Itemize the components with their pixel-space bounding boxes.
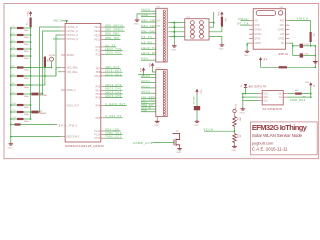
svg-text:ADC2: ADC2 — [141, 84, 150, 88]
svg-text:Solar WLAN Sensor Node: Solar WLAN Sensor Node — [252, 133, 303, 138]
capacitor C9 — [11, 93, 17, 95]
svg-text:100n: 100n — [24, 58, 30, 60]
svg-text:C_DAC0_OUT: C_DAC0_OUT — [105, 103, 126, 106]
svg-text:PC0: PC0 — [96, 47, 101, 49]
wire LFXTAL_P net to MCU — [40, 27, 62, 112]
svg-text:3V3_SW: 3V3_SW — [193, 96, 195, 104]
svg-text:PD5: PD5 — [96, 118, 101, 120]
wire VMCU at MCU top — [62, 21, 67, 24]
power symbol VCC (top left) — [29, 11, 32, 14]
ground GND (ESP) — [246, 50, 248, 52]
svg-text:CMU_OUT: CMU_OUT — [105, 66, 120, 69]
svg-text:BH1750FVI-TR: BH1750FVI-TR — [249, 85, 267, 88]
svg-text:pugbutt.com: pugbutt.com — [252, 141, 273, 146]
capacitor C14 — [293, 45, 300, 47]
svg-text:C.A.E. 2015-11-11: C.A.E. 2015-11-11 — [252, 147, 288, 152]
power symbol VCC (R3) — [220, 12, 223, 15]
svg-text:PC1: PC1 — [96, 51, 101, 53]
svg-text:VMCU: VMCU — [141, 8, 150, 12]
svg-text:EFM32G110F128_QFN32: EFM32G110F128_QFN32 — [65, 144, 104, 148]
svg-text:D1: D1 — [241, 85, 243, 87]
wire ESP RXD net — [241, 24, 250, 26]
resistor R10 10k — [233, 134, 237, 143]
wire sensor VCC pullup — [288, 93, 295, 95]
svg-text:100n: 100n — [24, 30, 30, 32]
svg-text:VCC: VCC — [149, 62, 151, 67]
svg-text:PE13: PE13 — [94, 31, 100, 33]
svg-text:VCC: VCC — [219, 11, 221, 16]
SV1 left wires — [141, 10, 156, 12]
svg-text:DBG_SWO: DBG_SWO — [141, 29, 156, 33]
svg-text:GND: GND — [194, 125, 199, 127]
sensor left pins and wires — [258, 93, 262, 95]
svg-text:100n: 100n — [24, 51, 30, 53]
svg-text:PD4: PD4 — [96, 106, 101, 108]
svg-text:GND: GND — [171, 49, 176, 51]
svg-text:VDD_REG: VDD_REG — [67, 68, 78, 70]
capacitor C7 — [11, 75, 17, 77]
diode D1 indicator LED — [244, 84, 247, 87]
svg-text:10k: 10k — [239, 135, 241, 138]
IC U1 EFM32G microcontroller — [65, 23, 101, 142]
ground GND (SV1) — [136, 18, 138, 20]
svg-text:RESET: RESET — [67, 55, 75, 57]
svg-text:GND: GND — [134, 24, 139, 26]
svg-text:GND: GND — [254, 25, 259, 27]
svg-text:GND: GND — [231, 150, 236, 152]
capacitor C11 — [11, 111, 17, 113]
JP1 right wires — [209, 22, 214, 24]
ground GND (JP1) — [173, 44, 175, 46]
ground GND (left rail) — [10, 142, 12, 144]
test point TP1 — [233, 109, 236, 112]
svg-text:S7C4: S7C4 — [236, 104, 238, 109]
capacitor C12 — [11, 118, 17, 120]
connector SV2 — [156, 70, 167, 117]
module U2 ESP-01 WiFi — [253, 9, 285, 50]
svg-text:GND: GND — [176, 152, 181, 154]
resistor R1 — [30, 18, 32, 28]
power symbol VCC (sensor) — [310, 87, 312, 97]
wire JP1 row4 to ground — [209, 36, 222, 43]
ESP antenna trace — [256, 11, 276, 16]
svg-text:R9: R9 — [236, 118, 238, 120]
svg-text:PD4_LED: PD4_LED — [105, 128, 119, 131]
wire JP1 VMCU stub — [213, 12, 215, 27]
wire ESP RST pullup — [289, 20, 310, 22]
wire AVDD node — [24, 67, 52, 69]
svg-text:10k: 10k — [313, 33, 315, 36]
svg-text:100n: 100n — [24, 107, 30, 109]
crystal Q1 32.768kHz — [30, 93, 33, 95]
svg-text:ADC0_CH0: ADC0_CH0 — [105, 84, 122, 87]
svg-text:DBG_TDO: DBG_TDO — [105, 37, 119, 40]
svg-text:PB7: PB7 — [96, 69, 101, 71]
svg-text:DBG_SWDIO: DBG_SWDIO — [105, 29, 123, 32]
svg-text:GPIO2: GPIO2 — [254, 34, 262, 36]
svg-text:48MHZ: 48MHZ — [40, 113, 47, 115]
svg-text:ADC0: ADC0 — [141, 74, 150, 78]
svg-text:DBG_SWDIO: DBG_SWDIO — [141, 24, 160, 28]
capacitor C6 — [11, 67, 17, 69]
wire fuse to ground — [196, 110, 198, 119]
svg-text:GND: GND — [240, 112, 245, 114]
connector JP1 debug header — [185, 19, 209, 40]
wire C7 row extension — [24, 75, 57, 77]
svg-text:ADC0_CH2: ADC0_CH2 — [105, 91, 122, 94]
svg-text:CHPD: CHPD — [278, 30, 285, 32]
wire TP1 to R9 — [234, 113, 236, 117]
wire fuse top — [196, 94, 198, 106]
ESP left pins — [249, 20, 253, 22]
ground GND (caps) — [313, 61, 318, 63]
svg-text:PD2: PD2 — [96, 94, 101, 96]
svg-text:VD: VD — [254, 21, 258, 23]
svg-text:VMCU: VMCU — [53, 20, 62, 23]
wire sensor SDA net — [288, 96, 311, 98]
wire ESP pin6 ground — [247, 43, 249, 49]
svg-text:VCCA: VCCA — [203, 127, 213, 131]
svg-text:DBG_SWCLK: DBG_SWCLK — [141, 19, 160, 23]
MCU left pin stubs — [61, 26, 65, 28]
svg-text:100n: 100n — [24, 37, 30, 39]
wire R10 to ground — [234, 143, 236, 145]
capacitor C10 — [11, 104, 17, 106]
wire SV1 pin2 to ground — [137, 14, 156, 18]
svg-text:PB11: PB11 — [95, 76, 101, 78]
svg-text:32.768K: 32.768K — [40, 95, 48, 97]
capacitor C15 — [293, 55, 300, 57]
svg-text:CMO_PA1: CMO_PA1 — [290, 98, 306, 102]
svg-text:R10: R10 — [236, 135, 238, 138]
svg-text:100n: 100n — [24, 114, 30, 116]
svg-text:VCC: VCC — [27, 11, 29, 16]
svg-text:ESP-01: ESP-01 — [279, 52, 289, 56]
crystal Q2 48MHz — [30, 111, 33, 113]
svg-text:PC15: PC15 — [94, 138, 100, 140]
svg-text:GND: GND — [154, 125, 159, 127]
resistor R7 — [295, 93, 302, 95]
svg-text:PC13: PC13 — [94, 131, 100, 133]
wire sensor left rail — [242, 94, 244, 107]
svg-text:100n: 100n — [24, 44, 30, 46]
svg-text:EFM32G IoThingy: EFM32G IoThingy — [252, 123, 308, 132]
svg-text:SCL: SCL — [263, 101, 268, 103]
svg-text:PC14: PC14 — [94, 135, 100, 137]
svg-text:COMP_HYS: COMP_HYS — [133, 141, 153, 145]
capacitor C5 — [11, 55, 17, 57]
wire HFXTAL_P net to MCU — [56, 35, 61, 76]
svg-text:PD4: PD4 — [141, 57, 148, 61]
svg-text:GND: GND — [219, 48, 224, 50]
svg-text:GPIO0: GPIO0 — [254, 30, 262, 32]
capacitor C13 (bottom row) — [11, 124, 15, 126]
svg-text:PD1: PD1 — [96, 90, 101, 92]
ground GND (SV2) — [156, 120, 158, 122]
wire ESP VCC net — [241, 20, 250, 22]
svg-text:DC: DC — [279, 94, 283, 96]
svg-text:LEU0_RX: LEU0_RX — [141, 51, 156, 55]
svg-text:10k: 10k — [224, 18, 226, 21]
svg-text:PE11: PE11 — [95, 39, 101, 41]
wire HFXTAL_N stub — [53, 38, 61, 40]
wire cap bus vertical — [30, 28, 32, 119]
schematic frame border — [4, 4, 319, 159]
wire left cap rail — [10, 28, 12, 142]
svg-text:PB8: PB8 — [96, 72, 101, 74]
wire AVDD branch down — [44, 68, 46, 86]
svg-text:PE10: PE10 — [94, 35, 100, 37]
wire LED to rail — [245, 87, 247, 93]
capacitor C3 — [11, 41, 17, 43]
ground GND (T1) — [179, 147, 181, 149]
svg-text:100n: 100n — [24, 87, 30, 89]
svg-text:ADC1: ADC1 — [141, 79, 150, 83]
svg-text:IC2 I03SENSOR: IC2 I03SENSOR — [262, 108, 282, 111]
svg-text:URXD: URXD — [254, 43, 261, 45]
svg-text:PE12: PE12 — [94, 27, 100, 29]
svg-text:1k: 1k — [265, 58, 267, 60]
ground GND (JP1 row4) — [221, 43, 223, 45]
svg-text:ADC0_CH1: ADC0_CH1 — [105, 88, 122, 91]
svg-text:U0_RX: U0_RX — [141, 40, 152, 44]
wire SV2 to ground — [156, 117, 158, 120]
svg-text:G16: G16 — [280, 34, 285, 36]
JP1 left wires — [169, 22, 185, 24]
svg-text:UTXD: UTXD — [278, 39, 285, 41]
svg-text:VMCU: VMCU — [238, 17, 249, 21]
ground GND (divider) — [234, 145, 236, 147]
svg-text:DBG_SWCLK: DBG_SWCLK — [105, 25, 123, 28]
svg-text:GP15: GP15 — [254, 39, 261, 41]
svg-text:PD0: PD0 — [96, 87, 101, 89]
ESP right pins — [286, 20, 290, 22]
wire JP1 row3 to R3 — [209, 27, 222, 32]
power symbol VCC (SV2 pin1) — [151, 63, 154, 66]
resistor R9 2M2 — [233, 117, 237, 127]
svg-text:PD3: PD3 — [96, 98, 101, 100]
svg-text:U0_TX: U0_TX — [141, 35, 152, 39]
svg-text:U0_TX: U0_TX — [105, 44, 115, 47]
wire LFXTAL_N net to MCU — [43, 31, 62, 94]
svg-text:ADC0_CH3: ADC0_CH3 — [105, 95, 122, 98]
MCU right pin stubs and net labels — [101, 26, 105, 28]
wire DECOUPLE net to MCU — [11, 136, 61, 138]
power symbol VCCA (SV2 pin2) — [142, 68, 145, 71]
svg-text:100n: 100n — [24, 70, 30, 72]
svg-text:100n: 100n — [24, 96, 30, 98]
svg-text:VCC: VCC — [263, 94, 268, 96]
svg-text:PC2: PC2 — [96, 54, 101, 56]
svg-text:2M2: 2M2 — [239, 118, 241, 122]
svg-text:GND: GND — [141, 109, 147, 112]
resistor R2 (AVDD filter) — [44, 57, 46, 68]
capacitor C2 — [11, 34, 17, 36]
svg-text:U0_TX: U0_TX — [237, 22, 249, 26]
svg-text:RST: RST — [280, 21, 285, 23]
IC U3 I2C sensor — [262, 91, 283, 105]
svg-text:DECOUPLE: DECOUPLE — [67, 137, 80, 139]
supply symbol VCCA — [50, 57, 54, 61]
wire ESP CHPD to caps — [289, 43, 292, 55]
SV2 left wires — [141, 76, 156, 78]
resistor R5 and wire — [261, 62, 279, 67]
wire caps to ground rail — [314, 46, 316, 68]
title block frame — [250, 122, 317, 155]
power symbol VCC (R5) — [259, 57, 262, 60]
svg-text:GND: GND — [244, 55, 249, 57]
power symbol VCC (fuse chain) — [195, 89, 198, 92]
svg-text:100n: 100n — [24, 78, 30, 80]
wire R1 to cap bus — [30, 27, 32, 28]
wire VCCA tap — [234, 127, 236, 134]
connector SV1 — [156, 8, 167, 62]
resistor R4 — [310, 32, 312, 42]
sensor right pins — [283, 93, 288, 95]
svg-text:NC: NC — [281, 43, 285, 45]
svg-text:100n: 100n — [24, 121, 30, 123]
svg-text:LEU0_TX: LEU0_TX — [141, 46, 156, 50]
fuse F1 — [194, 106, 200, 110]
ground GND (fuse) — [196, 120, 198, 122]
svg-text:DBG_SWO: DBG_SWO — [105, 33, 119, 36]
wire VDD_REG — [56, 67, 61, 69]
svg-text:VSS_REG: VSS_REG — [67, 72, 78, 74]
svg-text:VCC: VCC — [200, 90, 202, 95]
capacitor C1 — [11, 27, 17, 29]
wire VSS_REG — [58, 71, 61, 73]
ground GND (sensor) — [242, 107, 244, 109]
wire JP1 left rail to ground — [173, 23, 175, 44]
capacitor C8 — [11, 84, 17, 86]
capacitor C4 — [11, 48, 17, 50]
svg-text:ADC3: ADC3 — [141, 90, 150, 94]
resistor R3 — [221, 17, 223, 27]
svg-text:GND: GND — [8, 147, 13, 149]
